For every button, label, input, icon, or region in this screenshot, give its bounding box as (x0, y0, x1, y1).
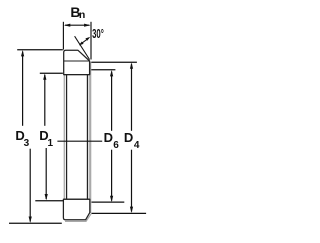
D4 dimension line upper with up arrow (130, 62, 133, 130)
30deg angle double arrow (79, 37, 90, 46)
D6 bottom extension line (92, 201, 125, 203)
Bn dimension line with arrows (64, 24, 91, 27)
head inner line (64, 60, 90, 62)
sleeve head (top cap with 30deg chamfer) (64, 50, 90, 74)
D1 bottom extension line (35, 200, 63, 202)
D4 top extension line (91, 61, 137, 63)
D1 dimension line upper with up arrow (43, 73, 46, 125)
head bottom edge (64, 74, 90, 76)
30deg leader line (75, 36, 90, 59)
svg-text:n: n (79, 9, 85, 21)
svg-text:D: D (124, 130, 133, 145)
D4 bottom extension line (92, 212, 147, 214)
svg-text:3: 3 (24, 138, 30, 149)
sleeve right-side gray shadow (90, 62, 92, 213)
bottom cap top edge emphasized (64, 198, 90, 200)
D6 top extension line (91, 69, 115, 71)
D3 bottom extension line (9, 222, 62, 224)
head right edge (89, 61, 91, 75)
mid section line through body (57, 140, 102, 142)
D3 dimension line upper with up arrow (21, 50, 24, 126)
sleeve body right gray band (88, 75, 90, 199)
sleeve bottom gray shadow (65, 214, 91, 222)
D3 dimension line lower with down arrow (29, 149, 32, 223)
sleeve body left wall line (66, 75, 68, 200)
svg-text:6: 6 (113, 140, 119, 151)
D3 top extension line (17, 49, 63, 51)
D6 dimension line lower with down arrow (110, 150, 113, 202)
sleeve body right wall line (86, 75, 88, 200)
Bn left extension line (62, 22, 64, 50)
Bn right extension line (90, 22, 92, 60)
svg-text:1: 1 (48, 138, 54, 149)
svg-text:30°: 30° (92, 26, 104, 41)
svg-text:D: D (104, 130, 113, 145)
D1 dimension line lower with down arrow (45, 148, 48, 200)
sleeve bottom cap (63, 199, 89, 220)
sleeve body left gray band (63, 75, 65, 199)
D4 dimension line lower with down arrow (130, 150, 133, 213)
D1 top extension line (40, 72, 63, 74)
svg-text:4: 4 (134, 140, 140, 151)
D6 dimension line upper with up arrow (110, 70, 113, 131)
